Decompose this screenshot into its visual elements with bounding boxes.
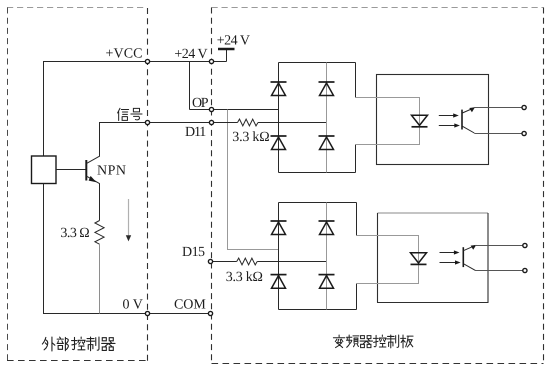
light arrows U2 [440, 250, 461, 264]
svg-text:0 V: 0 V [123, 298, 143, 313]
LED U2 [411, 253, 427, 265]
terminal D11 [209, 120, 213, 124]
input source box [32, 156, 57, 184]
external controller dashed box [7, 8, 148, 362]
terminal +24V [209, 59, 213, 63]
label inverter control board [333, 335, 413, 348]
wire left VCC drop [43, 62, 45, 157]
svg-text:OP: OP [192, 96, 209, 111]
phototransistor U1 [462, 107, 475, 133]
label external controller [42, 337, 115, 351]
diode D6 [271, 275, 287, 289]
svg-text:+24 V: +24 V [174, 47, 207, 62]
wire emitter drop [99, 183, 101, 220]
wire U2 emitter out [476, 270, 523, 272]
diode D8 [319, 275, 335, 289]
terminal COM [208, 311, 212, 315]
wire OP drop from rail [189, 62, 191, 110]
wire bottom rail [279, 172, 356, 174]
wire top rail [279, 62, 356, 64]
wire middle column [326, 203, 328, 310]
wire U2 collector out [475, 245, 522, 247]
diode D3 [319, 82, 335, 96]
LED U1 [412, 115, 428, 127]
wire OP branch down to lower bridge [228, 110, 279, 250]
svg-text:3.3 Ω: 3.3 Ω [60, 226, 89, 241]
terminal out3 [523, 243, 527, 247]
wire right side bottom [355, 145, 357, 173]
resistor R2 3.3k (D11) [238, 119, 259, 126]
resistor R3 3.3k (D15) [237, 258, 258, 265]
wire left column [278, 63, 280, 173]
wire middle column [326, 63, 328, 173]
+24V supply bar symbol [218, 49, 235, 62]
svg-text:COM: COM [174, 298, 206, 313]
phototransistor U2 [463, 245, 476, 271]
svg-text:NPN: NPN [97, 164, 126, 179]
optocoupler U1 box [377, 75, 489, 165]
wire 0V bottom rail [43, 313, 211, 315]
wire U2 anode feed [357, 236, 419, 284]
svg-text:D15: D15 [182, 245, 205, 260]
diode D2 [271, 136, 287, 150]
current direction arrow [126, 199, 131, 241]
wire U1 emitter out [474, 133, 521, 135]
optocoupler U2 box [377, 213, 489, 303]
diode D1 [271, 82, 287, 96]
svg-text:3.3 kΩ: 3.3 kΩ [232, 130, 269, 145]
diode D7 [319, 221, 335, 235]
wire left column [278, 203, 280, 310]
terminal out4 [523, 268, 527, 272]
terminal out1 [522, 105, 526, 109]
terminal signal [145, 120, 149, 124]
inverter control board dashed box [212, 8, 544, 364]
wire +VCC rail [43, 61, 227, 63]
wire top rail [279, 202, 357, 204]
wire R2 to bridge mid column [258, 122, 327, 124]
terminal OP [209, 107, 213, 111]
wire box bottom drop [43, 184, 45, 314]
terminal 0V [145, 311, 149, 315]
lower bridge rectifier [271, 203, 357, 310]
wire OP to bridge [190, 109, 279, 111]
wire D15 lead [211, 261, 237, 263]
label xinhao (signal) [118, 108, 142, 120]
resistor R1 3.3 ohm (vertical) [95, 221, 104, 245]
upper bridge rectifier [271, 63, 356, 173]
wire U1 anode feed [356, 98, 420, 145]
wire R3 to bridge mid column [257, 261, 326, 263]
svg-text:D11: D11 [185, 125, 206, 140]
wire right side top [356, 203, 358, 236]
diode D4 [319, 136, 335, 150]
wire right side top [355, 63, 357, 98]
wire signal line [99, 122, 211, 124]
svg-text:+VCC: +VCC [106, 47, 143, 62]
wire D11 lead [211, 122, 238, 124]
wire U1 collector out [474, 107, 522, 109]
svg-text:3.3 kΩ: 3.3 kΩ [226, 270, 263, 285]
diode D5 [271, 221, 287, 235]
transistor Q1 NPN [86, 156, 99, 183]
terminal out2 [522, 131, 526, 135]
wire bottom rail [279, 309, 357, 311]
light arrows U1 [439, 113, 460, 127]
wire collector riser [99, 123, 101, 157]
terminal D15 [208, 259, 212, 263]
terminal +VCC [145, 59, 149, 63]
svg-text:+24 V: +24 V [217, 34, 250, 49]
wire right side bottom [356, 284, 358, 310]
wire resistor to 0V [99, 244, 101, 313]
wire base [56, 169, 86, 171]
